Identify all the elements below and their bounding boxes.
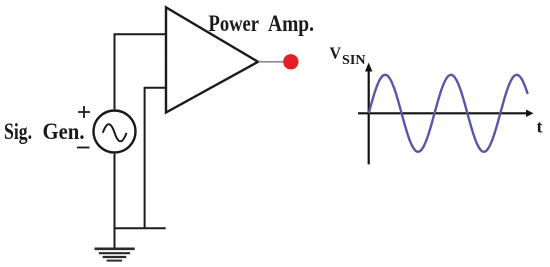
svg-text:Sig.: Sig. <box>4 119 32 145</box>
svg-text:t: t <box>537 116 543 136</box>
svg-text:Gen.: Gen. <box>43 119 85 145</box>
svg-text:Amp.: Amp. <box>268 11 314 37</box>
svg-text:Power: Power <box>209 11 260 37</box>
svg-text:V: V <box>330 43 342 62</box>
svg-text:SIN: SIN <box>342 53 366 68</box>
